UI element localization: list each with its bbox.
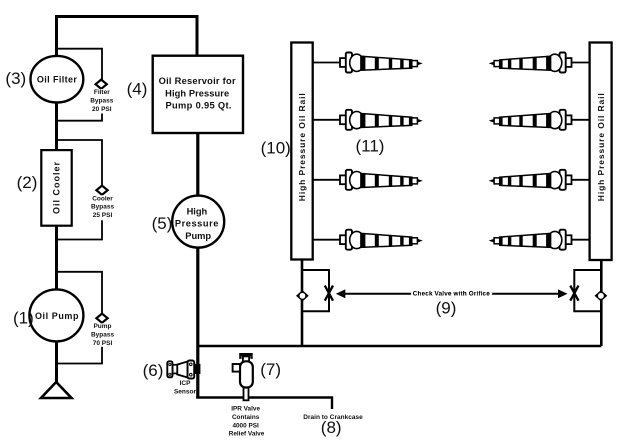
svg-text:(3): (3) [5,69,26,88]
svg-text:High Pressure Oil Rail: High Pressure Oil Rail [297,93,307,201]
svg-text:(9): (9) [436,299,457,318]
svg-text:Oil Reservoir for High Press: Oil Reservoir for High Pressure Pump 0.9… [159,76,239,110]
svg-text:Oil Pump: Oil Pump [35,311,79,321]
svg-text:(2): (2) [17,173,38,192]
svg-text:Check Valve with Orifice: Check Valve with Orifice [413,290,490,297]
svg-text:(7): (7) [260,360,281,379]
svg-text:(8): (8) [321,418,342,437]
svg-text:(5): (5) [152,214,173,233]
svg-text:(11): (11) [356,136,385,155]
svg-text:IPR Valve Contains 4000 PS: IPR Valve Contains 4000 PSI Relief Valve [229,406,265,438]
svg-text:ICPSensor: ICPSensor [174,380,197,395]
svg-text:(1): (1) [13,309,34,328]
svg-text:CoolerBypass25 PSI: CoolerBypass25 PSI [91,195,115,219]
svg-text:(10): (10) [261,139,291,158]
svg-text:(4): (4) [127,79,148,98]
svg-text:PumpBypass70 PSI: PumpBypass70 PSI [91,323,115,347]
svg-text:(6): (6) [143,361,164,380]
svg-text:High Pressure Oil Rail: High Pressure Oil Rail [596,93,606,201]
svg-text:Oil Filter: Oil Filter [37,75,77,85]
svg-text:Oil Cooler: Oil Cooler [52,162,62,214]
